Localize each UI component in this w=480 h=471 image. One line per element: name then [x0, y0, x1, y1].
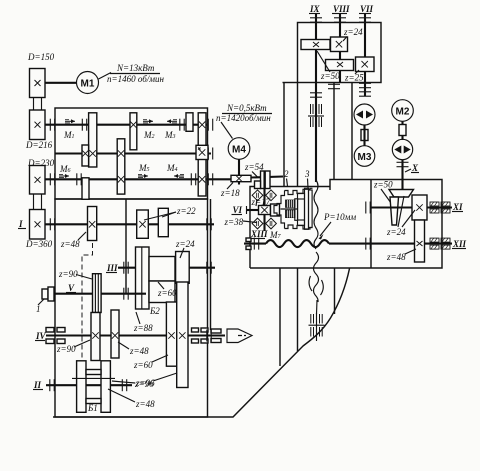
bearing shaft XI left — [366, 202, 370, 214]
gear box z=24 on shaft VIII — [331, 37, 348, 52]
bevel gear top left — [252, 190, 263, 201]
gear block A/B left column — [89, 113, 97, 167]
label P=10mm — [319, 212, 357, 240]
wire from top housing down to head (right) — [297, 83, 299, 187]
motor M2 — [392, 100, 414, 122]
pulley D=216 — [30, 110, 46, 140]
svg-text:II: II — [33, 380, 42, 390]
pulley D=360 — [30, 210, 46, 240]
svg-text:XI: XI — [452, 202, 463, 212]
shaft C (third gearbox shaft) — [45, 178, 232, 180]
shaft X — [401, 160, 403, 192]
wire M4 shaft down — [238, 159, 240, 184]
svg-text:z=90: z=90 — [58, 269, 78, 279]
machine bed outline — [53, 269, 350, 418]
tool arrow cone — [227, 329, 252, 343]
lower gearbox housing — [55, 199, 208, 417]
svg-text:P=10мм: P=10мм — [323, 212, 356, 222]
wire vertical support mid below feed box — [334, 268, 336, 314]
gear A/B tall right of column — [130, 113, 137, 150]
gear column far right — [198, 113, 206, 196]
label z=22 — [144, 206, 196, 220]
label VII — [359, 4, 374, 14]
bearing shaft A left — [82, 119, 86, 131]
label z=48 shaft I — [60, 232, 86, 249]
svg-text:XII: XII — [452, 239, 467, 249]
label z=38 — [224, 217, 258, 227]
label XIII — [250, 229, 268, 239]
gear z=60 wide lower — [149, 281, 175, 303]
svg-text:N=13кВт: N=13кВт — [116, 63, 155, 73]
gear B with clutch right — [196, 145, 208, 159]
flexible shaft below housing — [309, 252, 323, 314]
speed gearbox housing — [55, 108, 208, 199]
svg-text:M4: M4 — [232, 145, 246, 156]
label 3 — [304, 169, 310, 188]
gear z=18 on M4 shaft — [231, 175, 251, 181]
shaft V — [44, 293, 146, 295]
label XI — [452, 202, 463, 212]
label shaft III — [106, 263, 118, 273]
label z=24 shaft III — [175, 239, 195, 258]
label z=96 shaft II — [112, 378, 155, 388]
label shaft V — [66, 283, 76, 293]
bevel gear bottom left — [252, 218, 263, 229]
label z=48 right — [386, 249, 416, 262]
bearing shaft IX below box — [310, 93, 322, 97]
gear box on shaft VII — [356, 57, 375, 72]
svg-text:z=24: z=24 — [343, 27, 363, 37]
svg-text:z=18: z=18 — [220, 188, 240, 198]
belt 1 band — [34, 70, 42, 137]
bearing shaft A at housing — [50, 119, 54, 131]
inner frame of worm drive — [370, 180, 372, 269]
spindle center line — [281, 208, 298, 210]
wire M1 shaft — [45, 82, 77, 84]
spline joint shaft IX — [308, 104, 324, 127]
hydraulic pump on shaft VII — [354, 104, 375, 125]
label VI — [232, 205, 243, 215]
bearing shaft C left — [77, 173, 81, 185]
flexible shaft vertical wavy — [314, 180, 318, 249]
label z=50 worm wheel — [373, 180, 393, 204]
svg-text:D=216: D=216 — [25, 140, 53, 150]
bearing shaft X — [397, 162, 409, 166]
label z=25 — [344, 70, 364, 83]
bearing shaft VII top — [359, 18, 371, 22]
gear z=48 on shaft IV — [111, 310, 119, 358]
bearing shaft B housing right — [208, 148, 212, 160]
label z=18 — [220, 183, 240, 199]
gear block B1 — [72, 361, 115, 413]
gear z=48 on shaft I — [88, 207, 97, 241]
clutch M6 — [59, 164, 71, 178]
wire vertical support left below feed box — [279, 268, 281, 366]
svg-text:z=48: z=48 — [135, 399, 155, 409]
bearing shaft I at housing — [50, 218, 54, 230]
gear z=54 block — [255, 171, 271, 189]
spindle head bottom plate — [285, 225, 313, 229]
svg-text:z=50: z=50 — [373, 180, 393, 190]
label motor M1 rating — [99, 63, 165, 84]
svg-text:z=24: z=24 — [175, 239, 195, 249]
svg-text:z=48: z=48 — [386, 252, 406, 262]
svg-text:M2: M2 — [396, 107, 410, 118]
wire inner support — [125, 199, 127, 294]
gear box on shaft XI — [412, 195, 427, 220]
label z=54 — [244, 162, 264, 177]
bevel gear top right — [266, 190, 277, 201]
pulley D=230 — [30, 166, 46, 195]
coupling on M2 chain — [399, 121, 406, 140]
gear z=90 on shaft IV — [91, 313, 100, 361]
gear A right — [186, 113, 193, 132]
label z=24 top — [343, 27, 363, 41]
clutch M2 — [143, 119, 155, 140]
bearing shaft VIII below box — [328, 84, 340, 88]
gear z=90 on shaft V — [93, 274, 102, 313]
motor M3 — [354, 146, 375, 167]
bearing shaft C at housing — [50, 173, 54, 185]
hydraulic pump on shaft X — [392, 139, 412, 159]
bearing shaft XII left — [366, 238, 370, 250]
bearing shaft C right — [191, 173, 195, 185]
shaft XIII line with wavy middle — [244, 240, 430, 247]
spline joint bottom — [309, 313, 325, 341]
svg-text:IV: IV — [35, 331, 47, 341]
svg-text:z=48: z=48 — [60, 239, 80, 249]
svg-text:X: X — [411, 163, 419, 173]
dog clutch shaft IV left — [46, 328, 65, 344]
gear column B-C middle — [117, 139, 125, 194]
bearing shaft II right — [122, 379, 126, 391]
svg-text:M1: M1 — [81, 79, 95, 90]
shaft B (second gearbox shaft) — [55, 152, 211, 154]
gear z=50 flat on shaft IX — [301, 40, 330, 50]
svg-text:3: 3 — [304, 169, 310, 179]
label z=17 — [251, 197, 271, 207]
bearing shaft V — [124, 288, 128, 300]
gear flat on shaft VIII lower — [326, 60, 354, 71]
bearing shaft VIII top — [334, 18, 346, 22]
wire vertical support right below feed box — [297, 268, 299, 351]
svg-text:VI: VI — [233, 205, 243, 215]
wire extension down to feed housing — [351, 83, 353, 180]
svg-text:z=60: z=60 — [157, 288, 177, 298]
label shaft II — [33, 380, 43, 390]
label X — [405, 163, 419, 173]
shaft IV — [46, 334, 225, 336]
svg-text:z=48: z=48 — [129, 346, 149, 356]
wire from top housing down to head (left) — [283, 83, 285, 187]
clutch M4 — [166, 163, 184, 178]
spindle middle column — [295, 199, 298, 221]
label z=88 — [133, 312, 153, 333]
spindle spline pack lower — [286, 210, 296, 217]
label XII — [452, 239, 467, 249]
label z=24 worm — [386, 196, 415, 237]
gear z=96 tall on shaft IV — [177, 282, 188, 388]
bearing shaft IX top — [310, 18, 322, 22]
bearing shaft IV housing right — [207, 330, 211, 342]
gear block B2 tall — [136, 247, 150, 309]
shaft III — [118, 267, 215, 269]
spindle spline pack upper — [286, 200, 296, 207]
wire shaft C extension to z54 — [251, 177, 283, 178]
gear z=60 tall on shaft IV — [166, 302, 176, 366]
top right gear housing — [283, 23, 382, 83]
gear C left — [82, 178, 89, 200]
bearing shaft C housing right — [208, 173, 212, 185]
bearing shaft XI right hatched — [430, 202, 450, 213]
gear z=60 wide upper on shaft III — [149, 257, 175, 282]
wire feed column right of gearbox — [210, 199, 212, 330]
label 2 — [284, 169, 289, 186]
svg-text:z=24: z=24 — [386, 227, 406, 237]
bearing shaft A right — [180, 119, 184, 131]
svg-text:III: III — [106, 263, 118, 273]
svg-text:z=25: z=25 — [344, 73, 364, 83]
bearing shaft XIII left — [246, 238, 259, 250]
bearing shaft XII right hatched — [430, 238, 450, 249]
svg-text:Б2: Б2 — [149, 306, 160, 316]
svg-text:z=50: z=50 — [320, 71, 340, 81]
shaft VI stub — [247, 206, 259, 214]
bearing shaft A housing right — [208, 119, 212, 131]
label z=60 B2 — [157, 282, 177, 298]
label shaft I — [18, 219, 26, 229]
label motor M4 rating — [216, 103, 272, 139]
bearing shaft III right — [207, 262, 211, 274]
svg-text:VII: VII — [360, 4, 374, 14]
label z=96 — [134, 373, 177, 389]
pulley D=150 — [30, 69, 46, 98]
shaft VII — [364, 14, 366, 96]
bevel gear bottom right — [266, 218, 277, 229]
spindle head outer left wall — [274, 191, 285, 229]
svg-text:z=38: z=38 — [224, 217, 244, 227]
motor M4 — [228, 138, 250, 160]
label shaft IV — [35, 331, 47, 341]
shaft of bevel column — [263, 171, 265, 231]
svg-text:n=1420об/мин: n=1420об/мин — [216, 113, 271, 123]
svg-text:N=0,5кВт: N=0,5кВт — [226, 103, 267, 113]
label z=48 B1 — [108, 389, 155, 409]
gear on shaft I right — [158, 208, 168, 236]
gear B left — [82, 145, 89, 166]
label IX — [309, 4, 321, 14]
bearing shaft VII below box — [359, 83, 371, 87]
wire shaft VIII extension down — [333, 83, 335, 180]
svg-text:VIII: VIII — [333, 4, 350, 14]
gear on shaft I middle — [137, 210, 149, 238]
shaft XI — [371, 206, 452, 208]
svg-text:n=1460 об/мин: n=1460 об/мин — [107, 74, 164, 84]
clutch M3 — [164, 119, 177, 140]
svg-text:z=96: z=96 — [135, 378, 155, 388]
svg-text:z=22: z=22 — [176, 206, 196, 216]
worm wheel z=50 — [390, 197, 399, 225]
shaft VIII — [339, 14, 341, 83]
label z=60 shaft IV — [133, 355, 168, 370]
gear z=48 column — [415, 220, 425, 262]
clutch box on bevel shaft — [259, 206, 271, 215]
svg-text:I: I — [18, 219, 23, 229]
dog clutch shaft IV right with bearing — [192, 328, 222, 343]
feed housing outline — [250, 180, 442, 269]
dashed travel line — [82, 243, 93, 385]
motor M1 — [77, 72, 99, 94]
gear z=24 on shaft III — [176, 252, 190, 284]
worm on shaft X — [389, 190, 414, 198]
svg-text:D=360: D=360 — [25, 239, 53, 249]
belt 2 band — [34, 169, 42, 235]
bearing shaft III left — [124, 262, 128, 274]
spindle head right wall — [305, 188, 313, 229]
label z=48 shaft IV — [118, 342, 149, 356]
handwheel 1 on shaft V — [36, 287, 54, 314]
svg-text:M3: M3 — [358, 152, 372, 163]
shaft A (first gearbox shaft) — [45, 124, 207, 126]
label z=90 shaft IV — [56, 340, 90, 354]
svg-text:V: V — [68, 283, 75, 293]
bearing shaft I right — [207, 218, 211, 230]
label VIII — [332, 4, 350, 14]
clutch M1 — [63, 119, 75, 140]
gear column C mark — [199, 176, 205, 182]
bearing shaft II left — [50, 379, 54, 391]
svg-text:z=90: z=90 — [56, 344, 76, 354]
svg-text:XIII: XIII — [250, 229, 268, 239]
clutch M5 — [138, 163, 150, 178]
svg-text:1: 1 — [36, 304, 41, 314]
coupling on M3 chain — [361, 125, 368, 146]
svg-text:Б1: Б1 — [87, 403, 98, 413]
svg-text:IX: IX — [309, 4, 321, 14]
svg-text:2: 2 — [284, 169, 289, 179]
svg-text:z=88: z=88 — [133, 323, 153, 333]
spindle right block — [298, 193, 305, 225]
shaft IX — [315, 14, 317, 182]
shaft I — [45, 223, 214, 225]
spindle head top plate — [285, 188, 313, 194]
shaft XII right portion — [430, 243, 452, 245]
svg-text:z=60: z=60 — [133, 360, 153, 370]
svg-text:D=150: D=150 — [27, 52, 55, 62]
clutch mate toward head — [271, 204, 280, 216]
label z=90 shaft V — [58, 269, 92, 279]
label z=50 top — [317, 51, 340, 81]
shaft II — [46, 384, 132, 386]
svg-text:D=230: D=230 — [27, 158, 55, 168]
